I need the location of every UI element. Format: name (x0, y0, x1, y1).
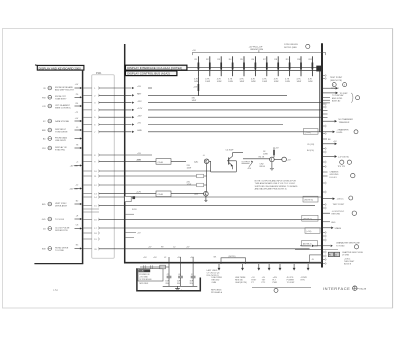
svg-text:+TRANSFER: +TRANSFER (337, 129, 350, 132)
svg-text:R4 2K: R4 2K (259, 156, 265, 158)
connector J101 pin 4 (83, 108, 99, 112)
svg-text:DISPLAY CONTROL BUS (A1A2): DISPLAY CONTROL BUS (A1A2) (127, 72, 170, 76)
resistor R11 pull-up (308, 56, 313, 83)
node input signal 7 from display/keyboard (42, 146, 82, 152)
wire signal line y131.8 (99, 130, 322, 133)
wire emitter feed (233, 152, 244, 154)
node bridge jumper over bus (214, 256, 246, 264)
wire interface board right edge (321, 43, 323, 267)
wire boundary right bar (82, 71, 84, 264)
node input signal 8 from display/keyboard (42, 202, 82, 207)
node boxed label TP6 (303, 196, 318, 202)
node input signal 3 from display/keyboard (42, 104, 82, 110)
node page number J-5A (53, 289, 58, 292)
svg-text:TP4 TP5: TP4 TP5 (338, 166, 346, 168)
svg-text:OHM: OHM (212, 282, 217, 284)
connector J101 pin 6 (83, 123, 99, 127)
svg-text:AND BACKPLANE PINS (NOTE 3): AND BACKPLANE PINS (NOTE 3) (255, 187, 287, 190)
wire signal line y228.0 (99, 227, 322, 229)
wire exit arrow y121 (323, 118, 353, 124)
svg-text:(NOTE 2): (NOTE 2) (303, 244, 312, 246)
svg-text:DRIVE ASSY: DRIVE ASSY (55, 204, 68, 207)
wire char gen line y247 (295, 245, 359, 250)
svg-text:TO DISP: TO DISP (287, 282, 295, 284)
wire interface board left edge (124, 44, 126, 263)
node boxed label +12V (303, 129, 318, 135)
resistor R3 pull-up (217, 56, 222, 83)
node wire tag (76, 200, 79, 202)
node label N24 (132, 209, 137, 211)
svg-text:1/4W: 1/4W (251, 81, 256, 83)
svg-text:PG A-7A: PG A-7A (358, 288, 367, 291)
svg-text:1/4W: 1/4W (263, 153, 268, 155)
node input signal (no bubble) (69, 187, 82, 190)
ground Q4 emitter (270, 168, 274, 170)
wire boundary bottom (34, 263, 83, 265)
svg-text:(+12V): (+12V) (305, 132, 312, 134)
node text under box (140, 283, 149, 285)
svg-text:NET: NET (137, 94, 142, 96)
resistor R1 lower body 330 ohm (192, 76, 199, 102)
node wire tag (75, 184, 79, 186)
connector J101 pin 2 (83, 94, 99, 98)
node test point TP2 (343, 83, 347, 87)
connector J101 pin 3 (83, 101, 99, 105)
svg-text:(NOTE 1): (NOTE 1) (303, 219, 312, 221)
wire edge stub y214 (125, 213, 134, 215)
node input signal 11 from display/keyboard (42, 247, 82, 252)
node wire tag (76, 224, 79, 226)
svg-text:1/4W: 1/4W (285, 81, 290, 83)
svg-text:THIS A1A2 BOARD USE 5 VOLT: THIS A1A2 BOARD USE 5 VOLT DC LOGIC (255, 182, 296, 185)
wire signal line y239.0 (98, 238, 100, 240)
connector shell bottom bracket (137, 268, 200, 291)
node to-display brace group (323, 93, 360, 103)
svg-text:LAST USED: LAST USED (207, 269, 218, 272)
svg-text:GND: GND (137, 130, 142, 132)
svg-text:+12V: +12V (137, 108, 143, 110)
node DISPLAY INTERFACE banner 2 (125, 71, 176, 76)
node wire tag (76, 144, 79, 146)
svg-text:OHM (NOTE): OHM (NOTE) (235, 282, 247, 284)
transistor Q3 driver (226, 150, 237, 172)
node chassis ground pins (323, 171, 355, 179)
node wire tag (76, 161, 79, 163)
wire signal line y95.3 (99, 94, 287, 97)
node +5V output stub (274, 157, 291, 162)
resistor R9 pull-up (285, 56, 290, 83)
node edge component box y197 (125, 196, 135, 201)
node text right of P102 (342, 251, 364, 266)
svg-text:J-5A: J-5A (53, 289, 58, 292)
node wire tag (76, 244, 79, 246)
connector J101 pin 7 (83, 130, 99, 134)
transistor Q4 output (259, 156, 275, 168)
wire +5V tst drop (262, 264, 271, 284)
svg-text:-12V: -12V (193, 87, 198, 89)
wire signal line y176.0 (99, 175, 207, 177)
svg-text:C2: C2 (173, 246, 175, 248)
svg-text:CHAPTER GEN PULSE: CHAPTER GEN PULSE (342, 251, 364, 254)
wire line-term drop 1 (212, 264, 223, 284)
svg-text:YOKE DRIVE: YOKE DRIVE (55, 131, 68, 133)
svg-text:INTERFACE: INTERFACE (323, 286, 350, 291)
integrated circuit U2 gate (136, 191, 171, 197)
wire line-term drop 2 (235, 264, 247, 284)
wire signal line y124.5 (99, 123, 283, 126)
wire signal line y155.0 (99, 154, 152, 156)
svg-text:AND DISP TB2-9 R7: AND DISP TB2-9 R7 (55, 88, 75, 91)
wire exit arrow y88 (323, 87, 338, 90)
svg-text:+12V: +12V (136, 159, 142, 161)
wire +45V flt drop (273, 264, 282, 284)
resistor R4 pull-up (228, 56, 233, 83)
wire exit arrow y199 (323, 196, 353, 206)
node boxed label y228 (305, 228, 320, 234)
svg-text:(NOTE 3): (NOTE 3) (304, 200, 313, 202)
svg-text:+5V: +5V (137, 86, 141, 88)
wire signal line y117.2 (99, 115, 322, 118)
svg-text:-12V: -12V (137, 101, 142, 103)
integrated circuit U1 gate (136, 159, 171, 165)
resistor R14 1K collector (263, 147, 279, 157)
wire signal line y193.7 (99, 193, 204, 195)
svg-text:1/4W: 1/4W (228, 81, 233, 83)
connector J101 pin 20 (83, 247, 99, 251)
connector J101 pin 19 (83, 238, 99, 242)
svg-text:DISPLAY INTERFACE CCA A1A2 (: DISPLAY INTERFACE CCA A1A2 (NOTE2) (127, 66, 182, 70)
svg-text:TO KYBD: TO KYBD (55, 250, 64, 252)
node boxed label y239 (302, 241, 318, 246)
svg-text:NO TRANSFER: NO TRANSFER (339, 118, 354, 121)
resistor R13 base Q2 (187, 181, 204, 186)
wire exit arrow y144 (323, 141, 337, 145)
svg-text:J1: J1 (335, 254, 337, 256)
svg-text:1/2W UNLESS: 1/2W UNLESS (284, 44, 298, 46)
node exit y213 (323, 211, 357, 216)
node notes cluster bottom left (211, 289, 222, 294)
svg-text:LEVEL: LEVEL (337, 132, 344, 134)
svg-text:1/4W: 1/4W (240, 81, 245, 83)
node test point label top (330, 77, 343, 82)
svg-text:BLKS ⊕: BLKS ⊕ (344, 263, 351, 266)
svg-text:CHASSIS: CHASSIS (330, 171, 339, 174)
svg-text:CD40: CD40 (158, 162, 164, 164)
node input signal (no bubble) (70, 164, 82, 167)
node exit y222 (323, 222, 336, 224)
svg-text:TRANSFER: TRANSFER (339, 121, 350, 124)
wire signal line y205.7 (99, 205, 315, 207)
node sheet title INTERFACE (323, 286, 367, 291)
svg-text:PFX A1A2 ⊕: PFX A1A2 ⊕ (211, 291, 222, 294)
wire signal line y185.0 (99, 184, 207, 186)
connector J101 pin 14 (83, 196, 99, 200)
connector J101 pin 18 (83, 232, 99, 236)
node bus corner box (310, 255, 322, 262)
svg-text:(NOTE): (NOTE) (229, 256, 236, 258)
svg-text:+5V DC: +5V DC (337, 199, 345, 201)
resistor R7 pull-up (262, 56, 267, 83)
svg-text:AND KYBD: AND KYBD (332, 97, 343, 100)
node note ref above bracket (284, 44, 310, 49)
svg-text:(+5 VOLTS): (+5 VOLTS) (338, 157, 349, 159)
svg-text:C7: C7 (191, 274, 193, 276)
svg-text:+5V: +5V (137, 153, 141, 155)
svg-text:1/4W: 1/4W (274, 81, 279, 83)
node input signal 5 from display/keyboard (42, 128, 82, 133)
wire signal line y197.0 (99, 196, 322, 198)
svg-text:TO 52-D8: TO 52-D8 (55, 219, 65, 221)
svg-text:SUPPLIED VIA CHASSIS WIRING: SUPPLIED VIA CHASSIS WIRING TO BOARD (255, 185, 298, 188)
svg-text:C6: C6 (178, 274, 180, 276)
connector J101 pin 9 (83, 160, 99, 164)
node signal labels lower group (137, 153, 141, 161)
connector J101 pin 15 (83, 204, 99, 208)
wire 45cps power drop (287, 264, 296, 284)
svg-text:GND: GND (331, 222, 336, 224)
capacitor C6 bypass (177, 257, 183, 286)
svg-text:A1A2: A1A2 (139, 270, 145, 273)
svg-text:+5V: +5V (137, 123, 141, 125)
node schematic note text (255, 180, 298, 191)
node wire tag (75, 84, 79, 86)
node test point TP1 (332, 83, 336, 87)
svg-text:RETURN: RETURN (332, 214, 341, 216)
svg-text:TUBE BTRY: TUBE BTRY (55, 99, 67, 101)
wire signal line y88.0 (99, 86, 152, 89)
svg-text:TO DISPLAY: TO DISPLAY (332, 94, 344, 97)
svg-text:B4 (C6): B4 (C6) (307, 150, 314, 152)
svg-text:R9: R9 (161, 246, 163, 248)
svg-text:NOTE: OUTPUTS AND INPUT LEVEL: NOTE: OUTPUTS AND INPUT LEVELS FOR (255, 180, 297, 183)
svg-text:DRIVER RTN: DRIVER RTN (55, 230, 68, 232)
svg-text:(+5V): (+5V) (306, 231, 311, 233)
resistor R5 pull-up (240, 56, 245, 83)
svg-text:WIRE CONTROL: WIRE CONTROL (55, 107, 72, 109)
wire 4pwr rtn drop (301, 264, 310, 281)
svg-text:+5V: +5V (192, 50, 196, 52)
node +5V filter stub labels (143, 257, 194, 259)
svg-text:1/4W: 1/4W (308, 81, 313, 83)
connector J101 pin 11 (83, 175, 99, 179)
resistor R1 pull-up (194, 56, 199, 83)
node DISPLAY AND KEYBOARD boundary banner (35, 65, 84, 70)
svg-text:(SEE NOTE): (SEE NOTE) (330, 80, 342, 82)
svg-text:(Q1): (Q1) (194, 161, 198, 163)
resistor R6 pull-up (251, 56, 256, 83)
resistor R12 base Q1 (187, 165, 204, 178)
node DISPLAY INTERFACE banner 1 (125, 65, 186, 70)
connector J101 stub pin (83, 208, 99, 210)
svg-text:CD40: CD40 (158, 194, 164, 196)
resistor R8 pull-up (274, 56, 279, 83)
svg-text:ASSY A2: ASSY A2 (332, 99, 341, 102)
node input signal 1 from display/keyboard (43, 86, 82, 92)
svg-text:+12V: +12V (136, 192, 142, 194)
node TP number labels (331, 88, 340, 90)
wire char gen line y245 (300, 241, 360, 247)
node board reference text box (138, 269, 163, 281)
ground bottom (175, 286, 183, 292)
connector J101 pin 13 (83, 192, 99, 196)
svg-text:1/4W: 1/4W (262, 81, 267, 83)
node wire tag (75, 112, 79, 114)
svg-text:C5: C5 (167, 274, 169, 276)
wire signal line y233.0 (98, 232, 100, 234)
wire interface board bottom bus (124, 262, 323, 264)
wire +5V test drop (251, 264, 260, 284)
connector J101 pin 17 (83, 227, 99, 231)
node input signal 9 from display/keyboard (42, 217, 82, 221)
svg-text:LT GRN: LT GRN (342, 255, 350, 257)
resistor R10 pull-up (297, 56, 302, 83)
connector edge pins right (323, 74, 326, 265)
wire signal line y109.9 (99, 108, 322, 111)
node wire tag (76, 215, 79, 217)
connector P102 block B (334, 252, 339, 256)
svg-text:C4 300P: C4 300P (226, 150, 234, 152)
svg-text:LUG E1: LUG E1 (330, 177, 338, 179)
svg-text:MP6 REF: MP6 REF (140, 283, 149, 285)
node labels above y246 line (148, 246, 190, 248)
svg-text:O5 (C8): O5 (C8) (307, 144, 314, 146)
node input signal 10 from display/keyboard (43, 227, 82, 232)
svg-text:1/2W: 1/2W (187, 184, 192, 186)
node rail to edge junction (316, 66, 321, 132)
wire signal line y171.0 (99, 170, 211, 172)
wire exit arrow y93 (323, 92, 348, 95)
wire +5V rail B (177, 70, 322, 72)
svg-text:PWR: PWR (273, 282, 278, 284)
svg-text:P1: P1 (329, 254, 331, 256)
svg-text:CHARACTER GEN PULSE: CHARACTER GEN PULSE (336, 241, 360, 244)
node edge pins y110-117 (323, 111, 328, 118)
svg-text:PT2: PT2 (262, 282, 266, 284)
connector J101 pin 16 (83, 218, 99, 222)
svg-text:IN914: IN914 (260, 166, 266, 168)
connector P102 block A (328, 252, 333, 256)
svg-text:NOTED (SEE: NOTED (SEE (284, 47, 297, 49)
wire exit arrow y131 (323, 129, 358, 135)
connector J101 pin 8 (83, 154, 99, 158)
wire signal line y219.3 (99, 218, 322, 220)
node +5 volts tap (323, 155, 352, 168)
svg-text:P101: P101 (96, 73, 102, 75)
wire ground rail (163, 285, 198, 287)
node last used cluster left (207, 269, 221, 277)
svg-text:R14 (NOTE 1): R14 (NOTE 1) (207, 275, 220, 277)
wire Q1 collector to bus (209, 161, 236, 172)
node video output tap (242, 159, 270, 170)
node wire tag (76, 127, 79, 129)
node edge stub y139 (323, 139, 331, 141)
wire signal line y248.8 (99, 248, 310, 250)
resistor R2 pull-up (205, 56, 210, 83)
wire bottom link line (252, 288, 311, 293)
wire +5V rail A (187, 66, 322, 68)
svg-text:TO KYBD: TO KYBD (336, 245, 345, 247)
node +5V pull-up bracket (192, 46, 326, 55)
capacitor C7 bypass (190, 257, 196, 286)
svg-text:1/4W: 1/4W (205, 81, 210, 83)
node input signal 6 from display/keyboard (43, 136, 82, 142)
connector J101 shell (92, 73, 114, 258)
capacitor C5 bypass (165, 257, 171, 286)
node wire tag (76, 103, 79, 105)
node input signal 2 from display/keyboard (42, 95, 82, 100)
svg-text:LINE DRVR: LINE DRVR (55, 140, 66, 142)
wire edge stub y232 (125, 233, 142, 235)
node wire tag (76, 94, 79, 96)
svg-text:SPARE: SPARE (335, 227, 342, 230)
wire signal line y102.6 (99, 101, 322, 104)
svg-text:TEST POINT: TEST POINT (333, 204, 346, 206)
svg-text:-15V: -15V (137, 115, 142, 117)
svg-text:1/4W: 1/4W (194, 81, 199, 83)
connector J101 pin 10 (83, 170, 99, 174)
node input signal 4 from display/keyboard (43, 119, 82, 123)
svg-text:W1: W1 (214, 257, 217, 259)
svg-text:52 PIN EDGE: 52 PIN EDGE (139, 279, 152, 281)
svg-text:(Q2): (Q2) (194, 194, 198, 196)
transistor Q1 (194, 155, 209, 191)
transistor Q2 (194, 191, 208, 201)
svg-text:1/4W: 1/4W (297, 81, 302, 83)
node labels inside right edge y144 (307, 144, 314, 152)
connector J101 pin 12 (83, 184, 99, 188)
wire edge stub y237 (125, 237, 134, 239)
node wire tag (75, 118, 79, 120)
svg-text:DISPLAY AND KEYBOARD 2000: DISPLAY AND KEYBOARD 2000 (39, 66, 82, 70)
wire exit arrow y228 (323, 227, 342, 230)
svg-text:RESISTORS: RESISTORS (251, 49, 264, 51)
svg-text:DATA STROBE: DATA STROBE (55, 120, 70, 123)
svg-text:1/4W: 1/4W (192, 100, 197, 102)
svg-text:KYBD PNL: KYBD PNL (55, 149, 66, 151)
connector J101 pin 1 (83, 87, 99, 91)
connector J101 stub pin (83, 211, 99, 213)
svg-text:1/2W: 1/2W (187, 168, 192, 170)
inductor L2 on +5V feed (140, 265, 169, 269)
svg-text:RTN: RTN (301, 279, 306, 281)
wire signal line y161.3 (99, 160, 186, 162)
connector J101 pin 5 (83, 116, 99, 120)
svg-text:1/4W: 1/4W (217, 81, 222, 83)
node boxed label y218 (302, 215, 318, 221)
